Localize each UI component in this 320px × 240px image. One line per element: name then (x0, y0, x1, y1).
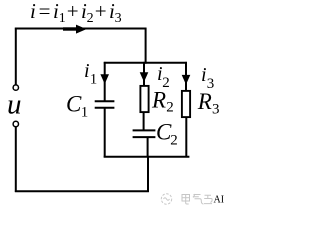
wire branch1 lower (104, 108, 106, 158)
wire top bar (104, 62, 187, 64)
wire R2 to C2 (143, 113, 145, 131)
wire return vertical (147, 156, 149, 192)
current arrow i on top wire (63, 25, 87, 34)
svg-text:+: + (95, 0, 107, 23)
svg-text:2: 2 (166, 100, 174, 116)
current arrow i3 (182, 75, 191, 85)
wire bottom (15, 190, 149, 192)
wire bottom bar (104, 156, 190, 158)
svg-text:i: i (84, 60, 90, 82)
svg-text:1: 1 (59, 11, 66, 26)
source terminal top (13, 85, 18, 90)
wire left upper (15, 28, 17, 85)
capacitor C1 (95, 101, 115, 108)
wire branch3 lower (185, 118, 187, 158)
wire branch1 upper (104, 62, 106, 101)
current arrow i2 (140, 72, 149, 82)
svg-text:R: R (151, 87, 166, 112)
svg-text:1: 1 (81, 105, 89, 121)
svg-text:2: 2 (170, 132, 178, 148)
watermark text (182, 194, 212, 204)
wire left lower (15, 127, 17, 192)
wire C2 to bottom bar (147, 137, 149, 157)
svg-text:R: R (197, 89, 212, 114)
watermark icon (161, 194, 171, 204)
svg-text:+: + (67, 0, 79, 23)
svg-text:u: u (7, 89, 22, 121)
svg-text:i: i (30, 0, 36, 23)
equation label i = i1 + i2 + i3 (30, 0, 122, 26)
wire top (15, 28, 147, 30)
svg-text:2: 2 (87, 11, 94, 26)
svg-text:=: = (39, 0, 51, 23)
wire branch2 upper (143, 62, 145, 86)
source terminal bottom (13, 121, 18, 126)
wire feed vertical (145, 28, 147, 64)
svg-text:C: C (66, 92, 82, 117)
resistor R3 (182, 91, 190, 117)
svg-text:AI: AI (214, 195, 225, 206)
svg-text:3: 3 (115, 11, 122, 26)
svg-text:3: 3 (212, 102, 220, 118)
capacitor C2 (133, 130, 156, 137)
wire branch3 upper (185, 62, 187, 91)
svg-text:i: i (201, 64, 207, 86)
resistor R2 (140, 86, 148, 112)
svg-text:1: 1 (90, 72, 98, 88)
current arrow i1 (100, 74, 109, 84)
